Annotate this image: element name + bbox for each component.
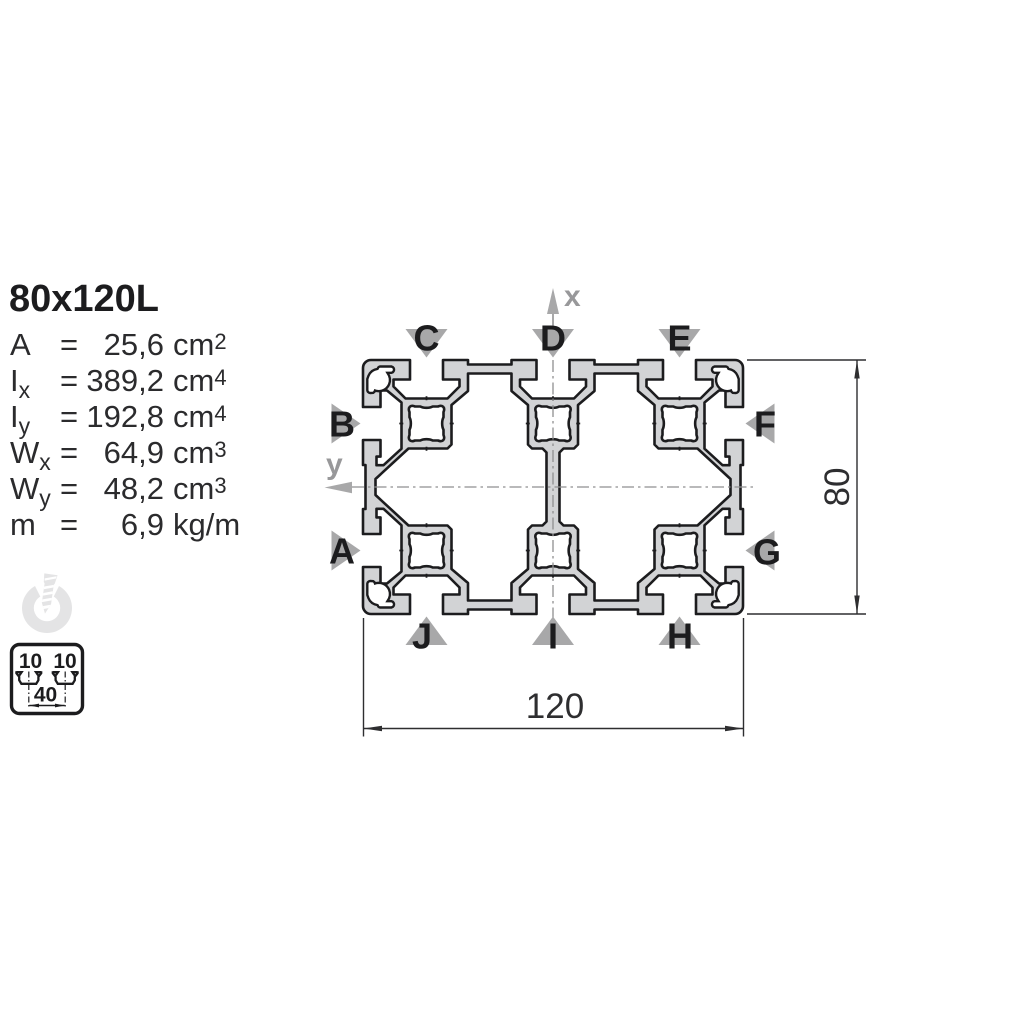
slot pointer I bbox=[532, 617, 574, 646]
property row Iy bbox=[9, 398, 11, 400]
svg-text:10: 10 bbox=[19, 650, 42, 673]
corner bracket slot bbox=[712, 581, 739, 608]
property row m bbox=[9, 506, 11, 508]
svg-text:120: 120 bbox=[526, 687, 584, 726]
slot pointer A bbox=[332, 531, 361, 571]
corner bracket slot bbox=[367, 581, 394, 608]
property row Wy bbox=[9, 470, 11, 472]
y axis arrow bbox=[325, 482, 353, 494]
slot pointer C bbox=[406, 329, 448, 358]
dimension line 80 bbox=[856, 360, 858, 614]
extension lines for 120 dimension bbox=[364, 618, 744, 737]
corner bracket slot bbox=[367, 367, 394, 394]
svg-text:C: C bbox=[414, 318, 440, 359]
property row Wx bbox=[9, 434, 11, 436]
vertical centerline x-axis bbox=[552, 315, 554, 621]
slot pointer F bbox=[746, 404, 775, 444]
svg-text:B: B bbox=[329, 404, 355, 445]
svg-text:F: F bbox=[754, 404, 776, 445]
core face tick marks bbox=[399, 396, 706, 577]
screw-in-ring icon bbox=[22, 573, 72, 633]
svg-text:I: I bbox=[548, 616, 558, 657]
svg-text:H: H bbox=[667, 616, 693, 657]
slot-pitch legend box bbox=[12, 645, 83, 714]
svg-text:10: 10 bbox=[53, 650, 76, 673]
legend centerlines bbox=[29, 672, 65, 709]
slot pointer H bbox=[659, 617, 701, 646]
slot pointer G bbox=[746, 531, 775, 571]
svg-text:y: y bbox=[326, 448, 343, 481]
dimension line 120 bbox=[364, 728, 744, 730]
svg-text:A: A bbox=[329, 531, 355, 572]
slot pointer E bbox=[659, 329, 701, 358]
aluminium profile cross-section 80x120L bbox=[363, 360, 743, 614]
svg-text:G: G bbox=[753, 532, 781, 573]
svg-text:80: 80 bbox=[818, 468, 857, 507]
svg-text:J: J bbox=[412, 616, 432, 657]
slot pointer J bbox=[406, 617, 448, 646]
slot pointer D bbox=[532, 329, 574, 358]
svg-text:D: D bbox=[540, 318, 566, 359]
svg-text:E: E bbox=[667, 318, 691, 359]
svg-text:x: x bbox=[564, 280, 581, 313]
horizontal centerline y-axis bbox=[352, 486, 757, 488]
title 80x120L bbox=[9, 278, 159, 321]
extension lines for 80 dimension bbox=[747, 360, 866, 614]
property row Ix bbox=[9, 362, 11, 364]
svg-text:40: 40 bbox=[34, 684, 57, 707]
slot pointer B bbox=[332, 404, 361, 444]
legend slot glyph bbox=[16, 671, 41, 684]
corner bracket slot bbox=[712, 367, 739, 394]
property row A bbox=[9, 326, 11, 328]
legend slot glyph bbox=[53, 671, 78, 684]
x axis arrow bbox=[547, 288, 559, 314]
